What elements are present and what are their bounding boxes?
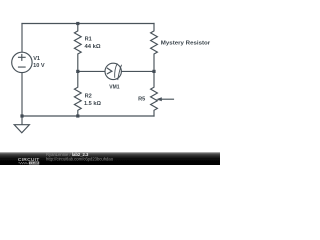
node A junction	[76, 70, 79, 73]
resistor R2	[74, 71, 81, 116]
svg-text:V1: V1	[33, 56, 40, 62]
R5 wiper arrowhead	[156, 97, 162, 101]
svg-text:R1: R1	[85, 37, 92, 43]
svg-text:44 kΩ: 44 kΩ	[85, 44, 102, 50]
resistor R5	[151, 71, 158, 116]
node junction bottom R2	[76, 114, 79, 117]
mystery resistor	[151, 24, 158, 72]
voltage source V1	[12, 52, 32, 72]
node junction ground	[20, 114, 23, 117]
wire node A to voltmeter	[78, 70, 105, 72]
wire voltmeter to right rail	[121, 70, 154, 72]
svg-text:10 V: 10 V	[33, 63, 45, 69]
wire bottom rail	[22, 115, 154, 117]
CircuitLab logo	[18, 157, 40, 165]
svg-text:R2: R2	[85, 94, 92, 100]
svg-text:1.5 kΩ: 1.5 kΩ	[84, 101, 101, 107]
svg-text:http://circuitlab.com/c6pd23bc: http://circuitlab.com/c6pd23bcuhdao	[46, 156, 114, 161]
wire top rail	[22, 23, 154, 25]
svg-text:R5: R5	[138, 97, 145, 103]
voltmeter VM1	[105, 63, 121, 79]
watermark credits	[46, 152, 114, 161]
wire V1 top lead	[21, 24, 23, 53]
ground	[21, 116, 23, 125]
svg-text:VM1: VM1	[109, 85, 119, 91]
resistor R1	[74, 24, 81, 72]
wire V1 bottom lead	[21, 73, 23, 116]
node junction top R1	[76, 22, 79, 25]
R5 wiper arrow wire	[162, 98, 174, 100]
svg-text:Mystery Resistor: Mystery Resistor	[161, 41, 211, 47]
node junction right mid	[152, 70, 155, 73]
svg-text:LAB: LAB	[32, 161, 39, 165]
